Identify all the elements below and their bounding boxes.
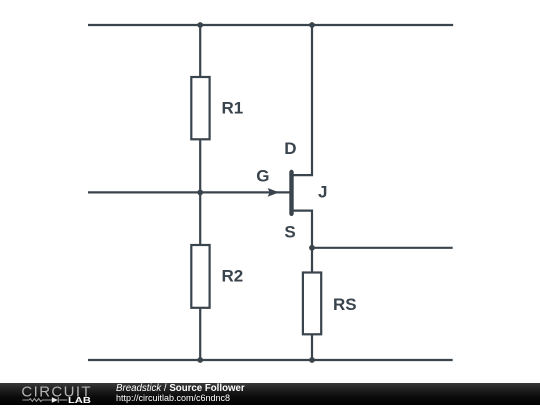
svg-text:LAB: LAB bbox=[68, 395, 91, 405]
svg-text:RS: RS bbox=[333, 295, 357, 314]
svg-text:D: D bbox=[284, 139, 296, 158]
svg-text:R2: R2 bbox=[222, 267, 244, 286]
svg-text:G: G bbox=[256, 166, 269, 185]
svg-text:R1: R1 bbox=[222, 99, 244, 118]
svg-text:J: J bbox=[318, 183, 327, 202]
svg-text:S: S bbox=[284, 222, 295, 241]
